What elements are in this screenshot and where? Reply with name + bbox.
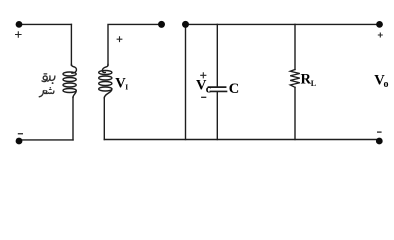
node: output terminal top [376, 21, 383, 28]
label: + at input top [15, 31, 22, 37]
svg-text:o: o [384, 79, 389, 90]
wire: left rail of filter section [185, 24, 187, 139]
wire: top rail right of switch gap [186, 23, 380, 25]
label: - at input bottom [18, 133, 23, 135]
label: + above VC [200, 72, 206, 78]
inductor L2 secondary (transformer) [99, 65, 112, 99]
label: + at secondary top [117, 36, 123, 42]
wire: secondary bottom vertical [103, 98, 105, 140]
wire: left loop top [19, 23, 71, 25]
svg-text:L: L [311, 79, 316, 88]
inductor L1 primary (transformer) [63, 65, 76, 98]
wire: secondary top vertical and top lead to node [108, 24, 162, 65]
node: switch terminal right [182, 21, 189, 28]
wire: primary bottom vertical [72, 97, 74, 140]
node: input terminal bottom [16, 138, 23, 145]
label: - below VC [201, 96, 206, 98]
wire: resistor branch lower [294, 87, 296, 139]
label: + at output top [378, 33, 383, 38]
svg-text:I: I [125, 82, 128, 91]
svg-text:C: C [229, 81, 239, 97]
resistor RL zigzag [290, 70, 300, 88]
label: persian word "shahr" (city) line 2 [39, 90, 54, 97]
node: switch terminal left [158, 21, 165, 28]
label: - at output bottom [377, 131, 382, 133]
wire: bottom rail [104, 139, 379, 141]
capacitor C [209, 87, 227, 91]
svg-text:c: c [206, 83, 211, 95]
node: input terminal top [16, 21, 23, 28]
wire: left loop bottom [19, 139, 73, 141]
wire: resistor branch upper [294, 24, 296, 69]
wire: primary top vertical [70, 24, 72, 65]
wire: capacitor branch upper [216, 24, 218, 86]
wire: capacitor branch lower [216, 92, 218, 139]
label: persian word "barq" (electricity) line 1 [42, 74, 55, 82]
node: output terminal bottom [376, 138, 383, 145]
